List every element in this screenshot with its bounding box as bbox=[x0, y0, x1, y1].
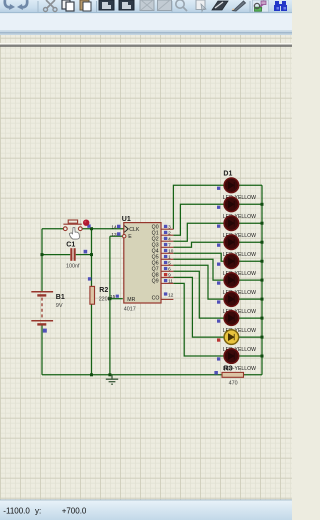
U1 pin 12 marker bbox=[164, 292, 167, 295]
svg-text:470: 470 bbox=[229, 381, 238, 387]
toolbar icon: scissors bbox=[46, 0, 55, 8]
junction R2 to rail bbox=[90, 373, 93, 376]
wire LED D10 to right bus bbox=[239, 355, 262, 357]
push button bar and actuator bbox=[63, 223, 81, 225]
wire R2 bottom to rail bbox=[91, 304, 93, 375]
marker LED D9 origin bbox=[217, 338, 220, 341]
svg-text:+700.0: +700.0 bbox=[62, 507, 87, 516]
toolbar icon: block rotate (disabled) bbox=[140, 0, 154, 11]
wire MR pin row bbox=[110, 298, 123, 300]
wire Q2 (pin 4) to LED D3 bbox=[173, 223, 224, 241]
resistor R2 bbox=[90, 286, 95, 304]
marker LED D5 origin bbox=[217, 263, 220, 266]
junction bus at LED D2 bbox=[261, 203, 264, 206]
U1 pin 4 marker bbox=[164, 237, 167, 240]
wire LED D2 to right bus bbox=[239, 203, 262, 205]
svg-text:E: E bbox=[128, 234, 132, 240]
junction bus at LED D5 bbox=[261, 260, 264, 263]
svg-text:C1: C1 bbox=[66, 241, 75, 248]
U1 pin 9 marker bbox=[164, 273, 167, 276]
toolbar icon: block delete (disabled) bbox=[158, 0, 172, 11]
toolbar icon: netlist (green/purple) bbox=[253, 0, 269, 12]
toolbar icon: block move bbox=[119, 0, 134, 10]
marker R2 origin bbox=[88, 277, 91, 280]
svg-text:Q9: Q9 bbox=[152, 279, 159, 285]
U1 clock input triangle bbox=[124, 226, 128, 233]
wire button to U1 CLK pin bbox=[82, 228, 124, 230]
svg-text:R2: R2 bbox=[99, 287, 108, 294]
LED D1 bbox=[224, 178, 239, 193]
toolbar separator bbox=[38, 1, 39, 12]
toolbar icon: find binoculars bbox=[274, 1, 287, 11]
mouse cursor over button bbox=[69, 228, 79, 240]
marker LED D7 origin bbox=[217, 300, 220, 303]
junction C1 / R2 branch bbox=[90, 253, 93, 256]
op-amp body: IC U1 4017 bbox=[124, 223, 161, 303]
svg-text:3: 3 bbox=[168, 224, 171, 229]
sheet top edge white strip bbox=[0, 43, 292, 45]
toolbar icon: undo arrow bbox=[5, 0, 12, 7]
svg-text:10: 10 bbox=[168, 248, 174, 253]
svg-text:9V: 9V bbox=[56, 303, 63, 309]
svg-text:U1: U1 bbox=[122, 216, 131, 223]
U1 pin 11 marker bbox=[164, 279, 167, 282]
junction bus at LED D6 bbox=[261, 279, 264, 282]
svg-text:7: 7 bbox=[168, 242, 171, 247]
wire Q1 (pin 2) to LED D2 bbox=[173, 204, 224, 235]
marker LED D6 origin bbox=[217, 281, 220, 284]
svg-text:100nf: 100nf bbox=[66, 264, 80, 270]
marker LED D3 origin bbox=[217, 225, 220, 228]
LED D4 bbox=[224, 235, 239, 250]
svg-text:15: 15 bbox=[110, 294, 116, 299]
marker LED D10 origin bbox=[217, 357, 220, 360]
toolbar background bbox=[0, 0, 292, 13]
LED D5 bbox=[224, 254, 239, 269]
toolbar pale band below bbox=[0, 13, 292, 32]
wire top row: rail to button bbox=[42, 228, 63, 230]
svg-text:4017: 4017 bbox=[124, 307, 136, 313]
junction button row / R2 branch bbox=[90, 227, 93, 230]
wire C1 row left segment bbox=[42, 254, 70, 256]
wire bottom ground rail bbox=[42, 374, 222, 376]
logic state red dot bbox=[83, 220, 89, 226]
wire LED D3 to right bus bbox=[239, 222, 262, 224]
wire E/MR vertical down to rail bbox=[109, 236, 111, 375]
LED D3 bbox=[224, 216, 239, 231]
LED D10 bbox=[224, 349, 239, 364]
LED D6 bbox=[224, 273, 239, 288]
toolbar icon: paste bbox=[80, 0, 89, 10]
wire vertical branch to R2 bbox=[91, 229, 93, 287]
LED D7 bbox=[224, 292, 239, 307]
wire Q3 (pin 7) to LED D4 bbox=[173, 242, 224, 247]
wire Q7 (pin 6) to LED D8 bbox=[173, 271, 224, 318]
svg-text:R3: R3 bbox=[224, 365, 233, 372]
marker battery origin bbox=[43, 329, 47, 333]
capacitor C1 bbox=[70, 248, 72, 261]
toolbar icon: page pointer bbox=[196, 0, 205, 10]
marker LED D4 origin bbox=[217, 244, 220, 247]
wire Q5 (pin 1) to LED D6 bbox=[173, 259, 224, 280]
svg-text:11: 11 bbox=[168, 279, 173, 284]
junction bus at LED D3 bbox=[261, 222, 264, 225]
toolbar icon: edit dark bbox=[212, 1, 228, 10]
junction MR tap on ground vertical bbox=[108, 297, 111, 300]
wire Q8 (pin 9) to LED D9 bbox=[173, 277, 224, 337]
svg-text:12: 12 bbox=[168, 293, 174, 298]
wire C1 row right segment bbox=[76, 254, 92, 256]
U1 pin Q3 stub bbox=[161, 246, 173, 248]
U1 pin Q5 stub bbox=[161, 258, 173, 260]
U1 pin 5 marker bbox=[164, 261, 167, 264]
wire left rail from button row to battery bbox=[41, 229, 43, 292]
wire Q0 (pin 3) to LED D1 bbox=[173, 185, 224, 229]
svg-text:1: 1 bbox=[168, 254, 171, 259]
svg-text:D1: D1 bbox=[223, 170, 232, 177]
ground bbox=[106, 375, 118, 384]
junction bus at LED D7 bbox=[261, 298, 264, 301]
U1 E inversion bubble bbox=[123, 235, 126, 238]
U1 pin Q6 stub bbox=[161, 264, 173, 266]
svg-text:-1100.0: -1100.0 bbox=[3, 507, 30, 516]
svg-text:5: 5 bbox=[168, 260, 171, 265]
U1 pin 3 marker bbox=[164, 225, 167, 228]
sheet top edge dark line bbox=[0, 45, 292, 46]
svg-text:CO: CO bbox=[152, 296, 160, 302]
wire LED D8 to right bus bbox=[239, 317, 262, 319]
U1 pin 12 stub (CO, unconnected) bbox=[161, 298, 173, 300]
wire bus bottom to R3 bbox=[244, 374, 263, 376]
U1 pin Q4 stub bbox=[161, 252, 173, 254]
junction bus at LED D4 bbox=[261, 241, 264, 244]
wire Q9 (pin 11) to LED D10 bbox=[173, 283, 224, 356]
push button terminals bbox=[63, 227, 67, 231]
svg-text:Q7: Q7 bbox=[152, 267, 159, 273]
wire Q4 (pin 10) to LED D5 bbox=[173, 253, 224, 261]
wire LED D1 to right bus bbox=[239, 184, 262, 186]
svg-text:220k: 220k bbox=[99, 297, 111, 303]
svg-text:13: 13 bbox=[111, 232, 117, 237]
U1 pin Q7 stub bbox=[161, 270, 173, 272]
wire LED D6 to right bus bbox=[239, 279, 262, 281]
toolbar separator bbox=[250, 1, 251, 12]
marker LED D2 origin bbox=[217, 206, 220, 209]
toolbar icon: zoom (disabled) bbox=[176, 0, 184, 8]
U1 pin Q0 stub bbox=[161, 228, 173, 230]
LED D2 bbox=[224, 197, 239, 212]
svg-text:4: 4 bbox=[168, 236, 171, 241]
junction left rail / C1 bbox=[41, 253, 44, 256]
toolbar icon: redo arrow bbox=[20, 0, 27, 7]
toolbar icon: pencil bbox=[232, 1, 246, 11]
svg-text:14: 14 bbox=[111, 224, 117, 229]
LED D8 bbox=[224, 311, 239, 326]
U1 pin Q1 stub bbox=[161, 234, 173, 236]
wire battery negative to bottom rail bbox=[41, 325, 43, 374]
svg-text:Q2: Q2 bbox=[152, 237, 159, 243]
toolbar icon: copy bbox=[62, 0, 70, 9]
marker R3 origin bbox=[214, 371, 218, 375]
svg-text:2: 2 bbox=[168, 230, 171, 235]
U1 pin 2 marker bbox=[164, 231, 167, 234]
toolbar icon: block copy bbox=[99, 0, 114, 10]
U1 pin Q8 stub bbox=[161, 276, 173, 278]
battery B1 bbox=[31, 292, 53, 325]
U1 pin 7 marker bbox=[164, 243, 167, 246]
wire LED D4 to right bus bbox=[239, 241, 262, 243]
resistor R3 470 bbox=[222, 372, 244, 377]
U1 pin 6 marker bbox=[164, 267, 167, 270]
wire Q6 (pin 5) to LED D7 bbox=[173, 265, 224, 299]
wire LED D5 to right bus bbox=[239, 260, 262, 262]
junction bus at LED D8 bbox=[261, 317, 264, 320]
svg-text:CLK: CLK bbox=[129, 227, 140, 233]
svg-text:B1: B1 bbox=[56, 294, 65, 301]
marker LED D1 origin bbox=[217, 187, 220, 190]
wire LED D7 to right bus bbox=[239, 298, 262, 300]
marker C1 origin bbox=[84, 250, 88, 254]
marker button origin bbox=[87, 224, 90, 227]
wire LED common bus vertical bbox=[261, 185, 263, 374]
LED D9 (lit) bbox=[224, 330, 239, 345]
wire LED D9 to right bus bbox=[239, 336, 262, 338]
U1 pin Q2 stub bbox=[161, 240, 173, 242]
svg-text:6: 6 bbox=[168, 266, 171, 271]
junction bus at LED D10 bbox=[261, 355, 264, 358]
status bar bbox=[0, 500, 292, 520]
svg-text:y:: y: bbox=[35, 507, 41, 516]
U1 pin 10 marker bbox=[164, 249, 167, 252]
wire E pin to vertical bbox=[110, 235, 123, 237]
junction ground vertical to rail bbox=[108, 373, 111, 376]
junction bus at LED D9 bbox=[261, 336, 264, 339]
toolbar separator bbox=[96, 1, 97, 12]
marker LED D8 origin bbox=[217, 319, 220, 322]
U1 pin Q9 stub bbox=[161, 282, 173, 284]
U1 pin 1 marker bbox=[164, 255, 167, 258]
svg-text:9: 9 bbox=[168, 273, 171, 278]
toolbar separator bbox=[172, 1, 173, 12]
svg-text:MR: MR bbox=[127, 297, 135, 303]
